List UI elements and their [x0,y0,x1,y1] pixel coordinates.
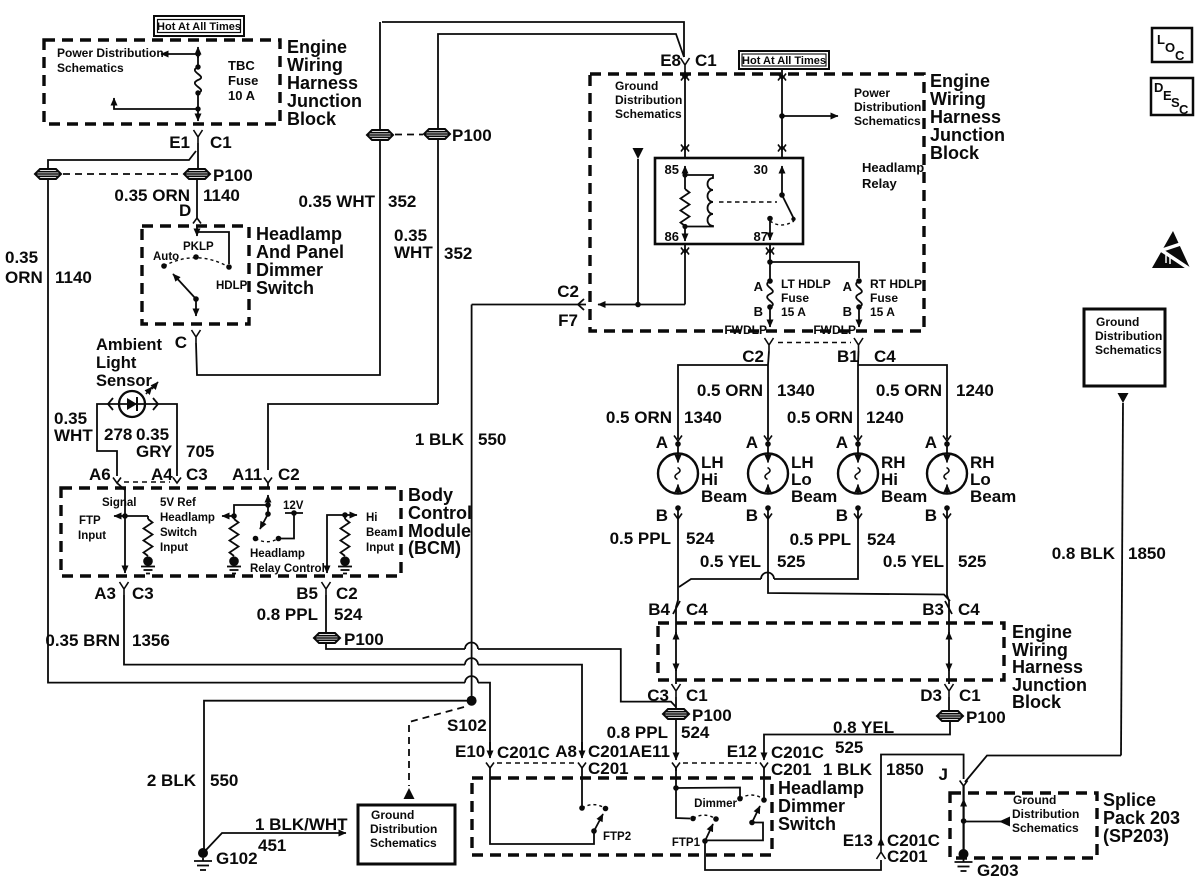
label: 0.5 ORN 1240 (RH Lo) [876,381,994,400]
wire: pin 87 down to fuse feed junction [769,244,771,262]
relay pin 85 [665,162,685,177]
svg-text:(SP203): (SP203) [1103,826,1169,846]
node: power distribution tap [779,113,785,119]
wire: RH Lo return down to B3 [947,508,949,623]
svg-text:Beam: Beam [881,487,927,506]
svg-text:E11: E11 [641,742,670,761]
node: junction below TBC fuse [195,106,200,111]
wire: E11 branch to Dimmer contact [676,788,740,797]
svg-text:1356: 1356 [132,631,170,650]
wire: hop of 0.35 ORN over 1 BLK riser [465,676,478,682]
connector: chevron pair on pin 30 wire [778,74,786,152]
wire: top horizontal run to E8 [382,22,684,57]
svg-text:Block: Block [930,143,980,163]
pin B LH Hi [656,505,682,525]
svg-text:Distribution: Distribution [370,822,437,836]
svg-text:Ground: Ground [1096,315,1139,329]
svg-text:C2: C2 [742,347,764,366]
svg-text:FWDLP: FWDLP [813,323,856,337]
connector: chevron pair below relay pin 86 [681,248,689,255]
label: 1 BLK 550 (riser) [415,430,507,449]
wire: B3 through junction block to D3 [948,623,950,684]
svg-text:524: 524 [334,605,363,624]
connector A4 / C3 [151,465,208,484]
wire: tap to ground distribution reference [964,821,1008,823]
connector C2 / F7 [557,282,584,330]
svg-text:525: 525 [835,738,863,757]
grommet: P100 on C3 wire [663,697,732,725]
node: splice S102 [467,696,477,706]
pin B RH Hi [836,505,862,525]
label: 5V Ref Headlamp Switch Input [160,497,215,554]
node: hi beam junction [342,512,348,518]
node: relay armature pivot [779,192,785,198]
svg-text:D: D [1154,80,1163,95]
svg-text:ORN: ORN [5,268,43,287]
svg-text:A: A [836,433,848,452]
connector: terminal C of switch [175,330,201,352]
svg-text:524: 524 [867,530,896,549]
splice pack box: Splice Pack 203 (dashed) [950,793,1097,858]
svg-text:85: 85 [665,162,679,177]
svg-text:550: 550 [210,771,238,790]
svg-text:Harness: Harness [1012,657,1083,677]
label: Headlamp Dimmer Switch [778,778,864,834]
connector E13 / C201C / C201 [843,831,940,866]
svg-text:Distribution: Distribution [615,93,682,107]
svg-text:Engine: Engine [1012,622,1072,642]
relay: dashed throw arc to pin 87 [770,221,794,225]
wire: FTP1 out of switch to E13 [705,841,881,870]
svg-text:P100: P100 [966,708,1006,727]
svg-text:B3: B3 [922,600,944,619]
svg-text:Distribution: Distribution [1095,329,1162,343]
svg-text:Harness: Harness [287,73,358,93]
wire: LT fuse output FWDLP arrow [769,307,771,327]
symbol: reference triangle above ground distribution box [404,788,415,799]
switch lever: dimmer hi/lo [752,806,760,823]
svg-text:C: C [1179,102,1189,117]
wire: 0.8 PPL run from B5/P100 to C3 wire [326,643,676,707]
label: Power Distribution Schematics (right) [854,86,921,128]
pin A LH Lo [746,433,772,452]
svg-text:Beam: Beam [701,487,747,506]
svg-text:352: 352 [444,244,472,263]
svg-text:Body: Body [408,485,453,505]
svg-text:1140: 1140 [55,268,92,287]
svg-text:1850: 1850 [886,760,924,779]
connector E12 / C201C / C201 [727,742,824,779]
svg-text:C1: C1 [686,686,708,705]
relay pin 87 [754,216,773,244]
wire: E12 into dimmer contact [763,768,765,800]
connector B5 / C2 [296,582,357,603]
svg-text:Dimmer: Dimmer [778,796,845,816]
label: Splice Pack 203 (SP203) [1103,790,1180,846]
fuse: TBC Fuse 10 A [195,54,259,103]
node: 5V ref junction [231,513,237,519]
ground: hi beam pull-down ground [338,556,352,573]
label: 2 BLK 550 [147,771,239,790]
wire: 1 BLK 1850 from E13 up and over to splice pack J [881,755,964,839]
svg-text:Relay: Relay [862,176,897,191]
svg-text:Beam: Beam [791,487,837,506]
box: DESC [1151,78,1193,117]
node: dimmer lever pivot [749,820,755,826]
svg-text:C201: C201 [887,847,928,866]
box: Ground Distribution Schematics (top right) [1084,309,1165,386]
label: 0.8 PPL 524 [257,605,363,624]
label: Ground Distribution Schematics (inside right JB) [615,79,682,121]
svg-text:15 A: 15 A [781,305,806,319]
svg-text:E8: E8 [660,51,681,70]
wire: sensor left lead to A6 [97,404,121,476]
svg-text:GRY: GRY [136,442,173,461]
svg-text:10 A: 10 A [228,88,256,103]
svg-text:0.5 ORN: 0.5 ORN [876,381,942,400]
label: 0.5 ORN 1340 (LH Lo) [697,381,815,400]
wire: triangle down to ground run [637,159,639,305]
fuse: RT HDLP Fuse 15 A [843,277,922,319]
connector B1 / C4 [837,338,896,366]
svg-text:30: 30 [754,162,768,177]
svg-text:Headlamp: Headlamp [256,224,342,244]
node: E12 contact [761,797,767,803]
connector B3 / C4 [922,600,980,619]
svg-text:0.35 WHT: 0.35 WHT [298,192,375,211]
svg-text:E12: E12 [727,742,757,761]
node: E11 branch junction [673,785,679,791]
svg-text:G203: G203 [977,861,1019,880]
wire: A11 riser bottom to BCM A11 [268,404,438,470]
relay pin 30 [754,162,782,195]
svg-text:0.35 BRN: 0.35 BRN [45,631,120,650]
wire: dashed connector face E10-A8 [497,762,576,764]
svg-text:J: J [939,765,948,784]
connector E1 / C1 [169,130,232,152]
wire: branch from E1 wire left to left grommet [48,151,196,169]
connector B4 / C4 [648,600,708,619]
wire: 1 BLK 550 riser from C2/F7 down to S102 [471,305,473,702]
node: switch common [193,296,199,302]
svg-text:0.5 YEL: 0.5 YEL [700,552,761,571]
svg-text:2 BLK: 2 BLK [147,771,197,790]
wire: branch with up arrow inside junction block [114,98,198,109]
wire: E8 down to relay pin 85 [684,71,686,158]
svg-text:524: 524 [686,529,715,548]
label: Body Control Module (BCM) [408,485,472,558]
svg-text:A6: A6 [89,465,111,484]
svg-text:C4: C4 [874,347,896,366]
wire: B1 feed to RH lamps [858,351,947,439]
wire: dimmer pivot to FTP1 [705,823,763,841]
node: relay coil bottom [682,224,687,229]
svg-text:A11: A11 [232,465,262,484]
svg-text:Relay Control: Relay Control [250,563,325,575]
box: Hot At All Times (left) [154,16,244,36]
wire: hop of RH Hi return over LH Lo wire [761,573,774,580]
connector E11 [641,742,680,771]
grommet P100 [184,169,210,179]
ground: signal pull-down ground [141,556,155,573]
wire: LH Lo return over to B3 [768,508,950,601]
svg-text:Ground: Ground [1013,793,1056,807]
svg-text:524: 524 [681,723,710,742]
svg-text:E1: E1 [169,133,190,152]
svg-text:Splice: Splice [1103,790,1156,810]
switch: dimmer dashed throw arc [740,795,764,799]
wire: 0.8 BLK 1850 down right side [1121,403,1123,756]
label: 0.5 PPL 524 (LH Hi) [610,529,715,548]
svg-text:Beam: Beam [366,527,397,539]
wire: 1 BLK/WHT 451 arrow to ground distribution box [206,833,346,850]
svg-text:0.5 PPL: 0.5 PPL [790,530,851,549]
symbol: reference triangle below box [1118,393,1129,403]
svg-text:C2: C2 [336,584,358,603]
connector: chevron at switch box entry [193,218,201,224]
svg-text:P100: P100 [344,630,384,649]
svg-text:C3: C3 [132,584,154,603]
connector A3 / C3 [94,582,153,603]
wire: ground run to C2/F7 exit arrow [598,304,685,306]
ground: headlamp switch input ground [227,556,241,573]
svg-text:E10: E10 [455,742,485,761]
svg-text:Junction: Junction [930,125,1005,145]
switch: FTP1 dashed throw arc [693,815,716,819]
wire: A6 stub into BCM [117,483,125,516]
svg-text:C4: C4 [686,600,708,619]
wire: 0.8 YEL run from P100 to E12 arrow [764,721,950,760]
wire: headlamp switch input arrow [222,515,234,517]
wire: dashed grommet link [63,173,182,175]
wire: feed over to HDLP contact [197,232,229,264]
svg-text:B: B [843,304,852,319]
svg-text:FTP2: FTP2 [603,831,631,843]
BCM box: Body Control Module (dashed) [61,488,401,576]
svg-text:FTP: FTP [79,515,101,527]
label: 0.35 GRY 705 [136,425,214,461]
svg-text:B: B [836,506,848,525]
pin A LH Hi [656,433,682,452]
svg-text:A: A [656,433,668,452]
svg-text:L: L [1157,32,1165,47]
label: 0.8 YEL 525 [833,718,894,757]
node: FTP2 contact left [579,805,585,811]
svg-text:0.8 YEL: 0.8 YEL [833,718,894,737]
svg-text:Light: Light [96,354,137,372]
svg-text:LT HDLP: LT HDLP [781,277,831,291]
svg-text:1 BLK: 1 BLK [823,760,873,779]
ground G102 [194,848,258,870]
label: 0.5 PPL 524 (RH Hi) [790,530,896,549]
lamp: LH Lo Beam [748,444,837,506]
junction block box: Engine Wiring Harness Junction Block (bottom, dashed) [658,623,1004,680]
svg-text:FTP1: FTP1 [672,837,701,849]
svg-text:Engine: Engine [930,71,990,91]
wire: dashed connector face A6-A4 [124,481,170,483]
svg-text:Hi: Hi [366,512,378,524]
relay pin 86 [665,227,685,245]
svg-text:Hot At All Times: Hot At All Times [742,55,826,67]
wire: hi beam to B5 arrow [327,515,345,573]
resistor: hi beam pull-down [341,515,350,556]
svg-text:Fuse: Fuse [781,291,809,305]
wire: RH Hi return over to B4 [679,508,858,587]
pin A RH Hi [836,433,862,452]
svg-text:E13: E13 [843,831,873,850]
pin B RH Lo [925,505,951,525]
junction block box: Engine Wiring Harness Junction Block (top left, dashed) [44,40,280,124]
node: relay control contact (left) [253,536,259,542]
wire: contact to 12V supply [279,513,295,539]
wire: 2 BLK branch from S102 [204,701,472,849]
svg-text:Control: Control [408,503,472,523]
grommet: P100 on B5 wire [314,633,340,643]
wire: Hi Beam input arrow [345,514,357,516]
svg-text:B: B [925,506,937,525]
svg-text:451: 451 [258,836,286,855]
svg-text:Switch: Switch [160,527,197,539]
node: triangle junction [635,302,641,308]
box: Hot At All Times (right) [739,51,829,69]
wire: J into splice pack bus [962,786,964,852]
wire: feed over to RT fuse [770,262,859,278]
switch lever: wiper arm pointing at Auto [173,274,196,299]
svg-text:HDLP: HDLP [216,280,248,292]
label: Headlamp Relay Control [250,548,325,575]
svg-text:B4: B4 [648,600,670,619]
svg-text:Schematics: Schematics [57,61,124,75]
relay armature lever [782,195,794,218]
svg-text:Engine: Engine [287,37,347,57]
symbol: ESD caution triangle [1152,231,1194,272]
connector: chevron pair below relay pin 87 [766,248,774,255]
lamp: LH Hi Beam [658,444,747,506]
svg-text:B: B [754,304,763,319]
node: splice bus tap [961,818,967,824]
lamp: RH Hi Beam [838,444,927,506]
svg-text:Hot At All Times: Hot At All Times [157,21,241,33]
connector J [939,765,968,786]
svg-text:C201C: C201C [497,743,550,762]
svg-text:Power: Power [854,86,890,100]
connector: chevrons at sensor leads [108,398,158,410]
resistor: headlamp switch input pull-down [230,516,239,556]
svg-text:A: A [746,433,758,452]
switch box: Headlamp And Panel Dimmer Switch (dashed) [142,226,249,324]
box: LOC [1152,28,1192,63]
wire: hop of 0.35 BRN over 1 BLK riser [465,658,478,665]
pin A RH Lo [925,433,951,452]
wire: E11 branch to FTP1 contact [676,788,690,819]
svg-text:1240: 1240 [956,381,994,400]
svg-text:Headlamp: Headlamp [778,778,864,798]
svg-text:Schematics: Schematics [370,836,437,850]
relay coil winding [685,175,713,227]
svg-text:1 BLK: 1 BLK [415,430,465,449]
svg-text:525: 525 [958,552,986,571]
svg-text:B: B [656,506,668,525]
svg-text:G102: G102 [216,849,258,868]
label: Ambient Light Sensor [96,336,163,390]
svg-text:Switch: Switch [256,278,314,298]
svg-text:Pack 203: Pack 203 [1103,808,1180,828]
svg-text:Headlamp: Headlamp [862,160,924,175]
wire: fuse output down to E1 [197,93,199,109]
svg-text:1240: 1240 [866,408,904,427]
svg-text:Ambient: Ambient [96,336,163,354]
symbol: reference arrowhead (points left) [999,817,1010,827]
node: A11 branch junction [265,502,271,508]
wire: C2/F7 exit to 1 BLK 550 riser [472,304,586,306]
node: FTP1 contact right [713,816,719,822]
node: relay control lever pivot [265,511,271,517]
svg-text:D: D [179,201,191,220]
label: 0.5 YEL 525 (RH Lo) [883,552,987,571]
svg-text:1340: 1340 [684,408,722,427]
wire: Hot At All Times down to relay pin 30 [781,69,783,158]
svg-text:Dimmer: Dimmer [694,798,737,810]
label: 0.35 ORN 1140 (left edge) [5,248,92,287]
svg-text:(BCM): (BCM) [408,538,461,558]
svg-text:P100: P100 [452,126,492,145]
wire: feed from Hot At All Times into junction block [197,47,199,58]
label: 0.35 BRN 1356 [45,631,169,650]
svg-text:B: B [746,506,758,525]
relay coil resistor [681,175,690,226]
svg-text:1340: 1340 [777,381,815,400]
connector A6 [89,465,121,484]
svg-text:Block: Block [287,109,337,129]
svg-text:Wiring: Wiring [287,55,343,75]
svg-text:Block: Block [1012,692,1062,712]
svg-text:C2: C2 [278,465,300,484]
svg-text:Schematics: Schematics [1095,343,1162,357]
svg-text:Schematics: Schematics [615,107,682,121]
svg-text:Distribution: Distribution [854,100,921,114]
svg-text:RT HDLP: RT HDLP [870,277,922,291]
svg-text:WHT: WHT [54,426,93,445]
svg-text:1850: 1850 [1128,544,1166,563]
svg-text:C1: C1 [695,51,717,70]
svg-text:Wiring: Wiring [930,89,986,109]
svg-text:B5: B5 [296,584,318,603]
wire: fuse output exits box [197,109,199,121]
ground G203 [955,849,1019,880]
label: Headlamp Relay [862,160,924,191]
node: armature tip [791,217,795,221]
svg-text:Schematics: Schematics [1012,821,1079,835]
label: 0.5 ORN 1340 (LH Hi) [606,408,722,427]
resistor: signal pull-down [144,516,153,556]
svg-text:86: 86 [665,229,679,244]
wire: arrow to Power Distribution Schematics (left) [161,53,198,55]
svg-text:0.8 BLK: 0.8 BLK [1052,544,1116,563]
node: FTP1 contact left [690,816,696,822]
svg-text:Ground: Ground [615,79,658,93]
svg-text:Harness: Harness [930,107,1001,127]
fuse: LT HDLP Fuse 15 A [754,262,831,319]
label: Ground Distribution Schematics (splice pack) [1012,793,1079,835]
svg-text:5V Ref: 5V Ref [160,497,196,509]
svg-text:C4: C4 [958,600,980,619]
svg-text:0.5 ORN: 0.5 ORN [697,381,763,400]
svg-text:Beam: Beam [970,487,1016,506]
svg-text:C: C [1175,48,1185,63]
svg-text:Power Distribution: Power Distribution [57,46,164,60]
svg-text:87: 87 [754,229,768,244]
svg-text:Dimmer: Dimmer [256,260,323,280]
